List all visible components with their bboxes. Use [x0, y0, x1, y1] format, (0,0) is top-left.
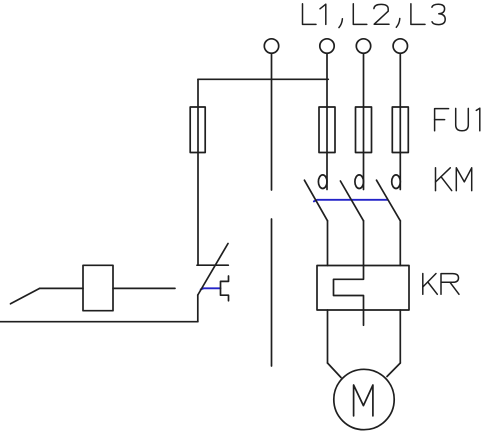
wire control column lower: [271, 219, 273, 366]
wire pole 1 below contact: [327, 221, 329, 266]
wire bottom return: [0, 321, 198, 323]
wire L2 column: [363, 53, 365, 189]
contactor KM pole 2 moving contact: [340, 181, 363, 221]
node L-terminal circle 1: [264, 39, 278, 53]
wire motor lead left: [328, 363, 342, 378]
node L1 terminal circle: [320, 39, 334, 53]
wire pole 3 below contact: [399, 221, 401, 266]
motor M circle: [334, 369, 394, 429]
wire top horizontal branch: [198, 78, 328, 80]
switch blade (start contact): [11, 288, 40, 303]
wire L1 column: [326, 53, 328, 189]
node L3 terminal circle: [393, 39, 407, 53]
wire L3 column: [399, 53, 401, 189]
thermal relay KR heater element: [334, 266, 364, 326]
contactor KM pole 2 fixed contact arc: [355, 175, 364, 189]
mechanical linkage blue line (KM poles): [314, 200, 388, 202]
wire coil right: [113, 287, 175, 289]
contactor coil KM box: [83, 265, 113, 310]
wire below stop button: [197, 295, 199, 322]
wire blade to coil: [40, 287, 83, 289]
button linkage blue line: [201, 288, 221, 289]
label L1,L2,L3: [303, 4, 446, 28]
contactor KM pole 1 fixed contact arc: [318, 175, 327, 189]
label KR: [423, 274, 459, 295]
fuse FU1 pole 3: [392, 107, 408, 153]
label M (motor): [354, 385, 373, 416]
wire control branch vertical: [197, 79, 199, 265]
wire pole 1 below KR: [327, 310, 329, 363]
contactor KM pole 3 moving contact: [377, 180, 401, 221]
contactor KM pole 3 fixed contact arc: [392, 175, 401, 189]
label KM: [436, 168, 472, 191]
wire control column upper (with auxiliary contact gap): [271, 53, 273, 190]
fuse FU control branch: [190, 107, 205, 153]
fuse FU1 pole 2: [356, 107, 372, 153]
stop button NC fixed contact tick: [197, 264, 228, 266]
thermal relay KR box: [317, 266, 409, 311]
stop button NC moving contact slash: [198, 244, 228, 296]
node L2 terminal circle: [356, 39, 370, 53]
wire pole 2 below contact: [363, 221, 365, 266]
wire pole 3 below KR: [399, 310, 401, 363]
fuse FU1 pole 1: [319, 107, 335, 153]
contactor KM pole 1 moving contact: [304, 180, 327, 221]
stop button actuator bracket: [221, 276, 229, 301]
wire motor lead right: [387, 363, 400, 377]
label FU1: [435, 108, 480, 131]
